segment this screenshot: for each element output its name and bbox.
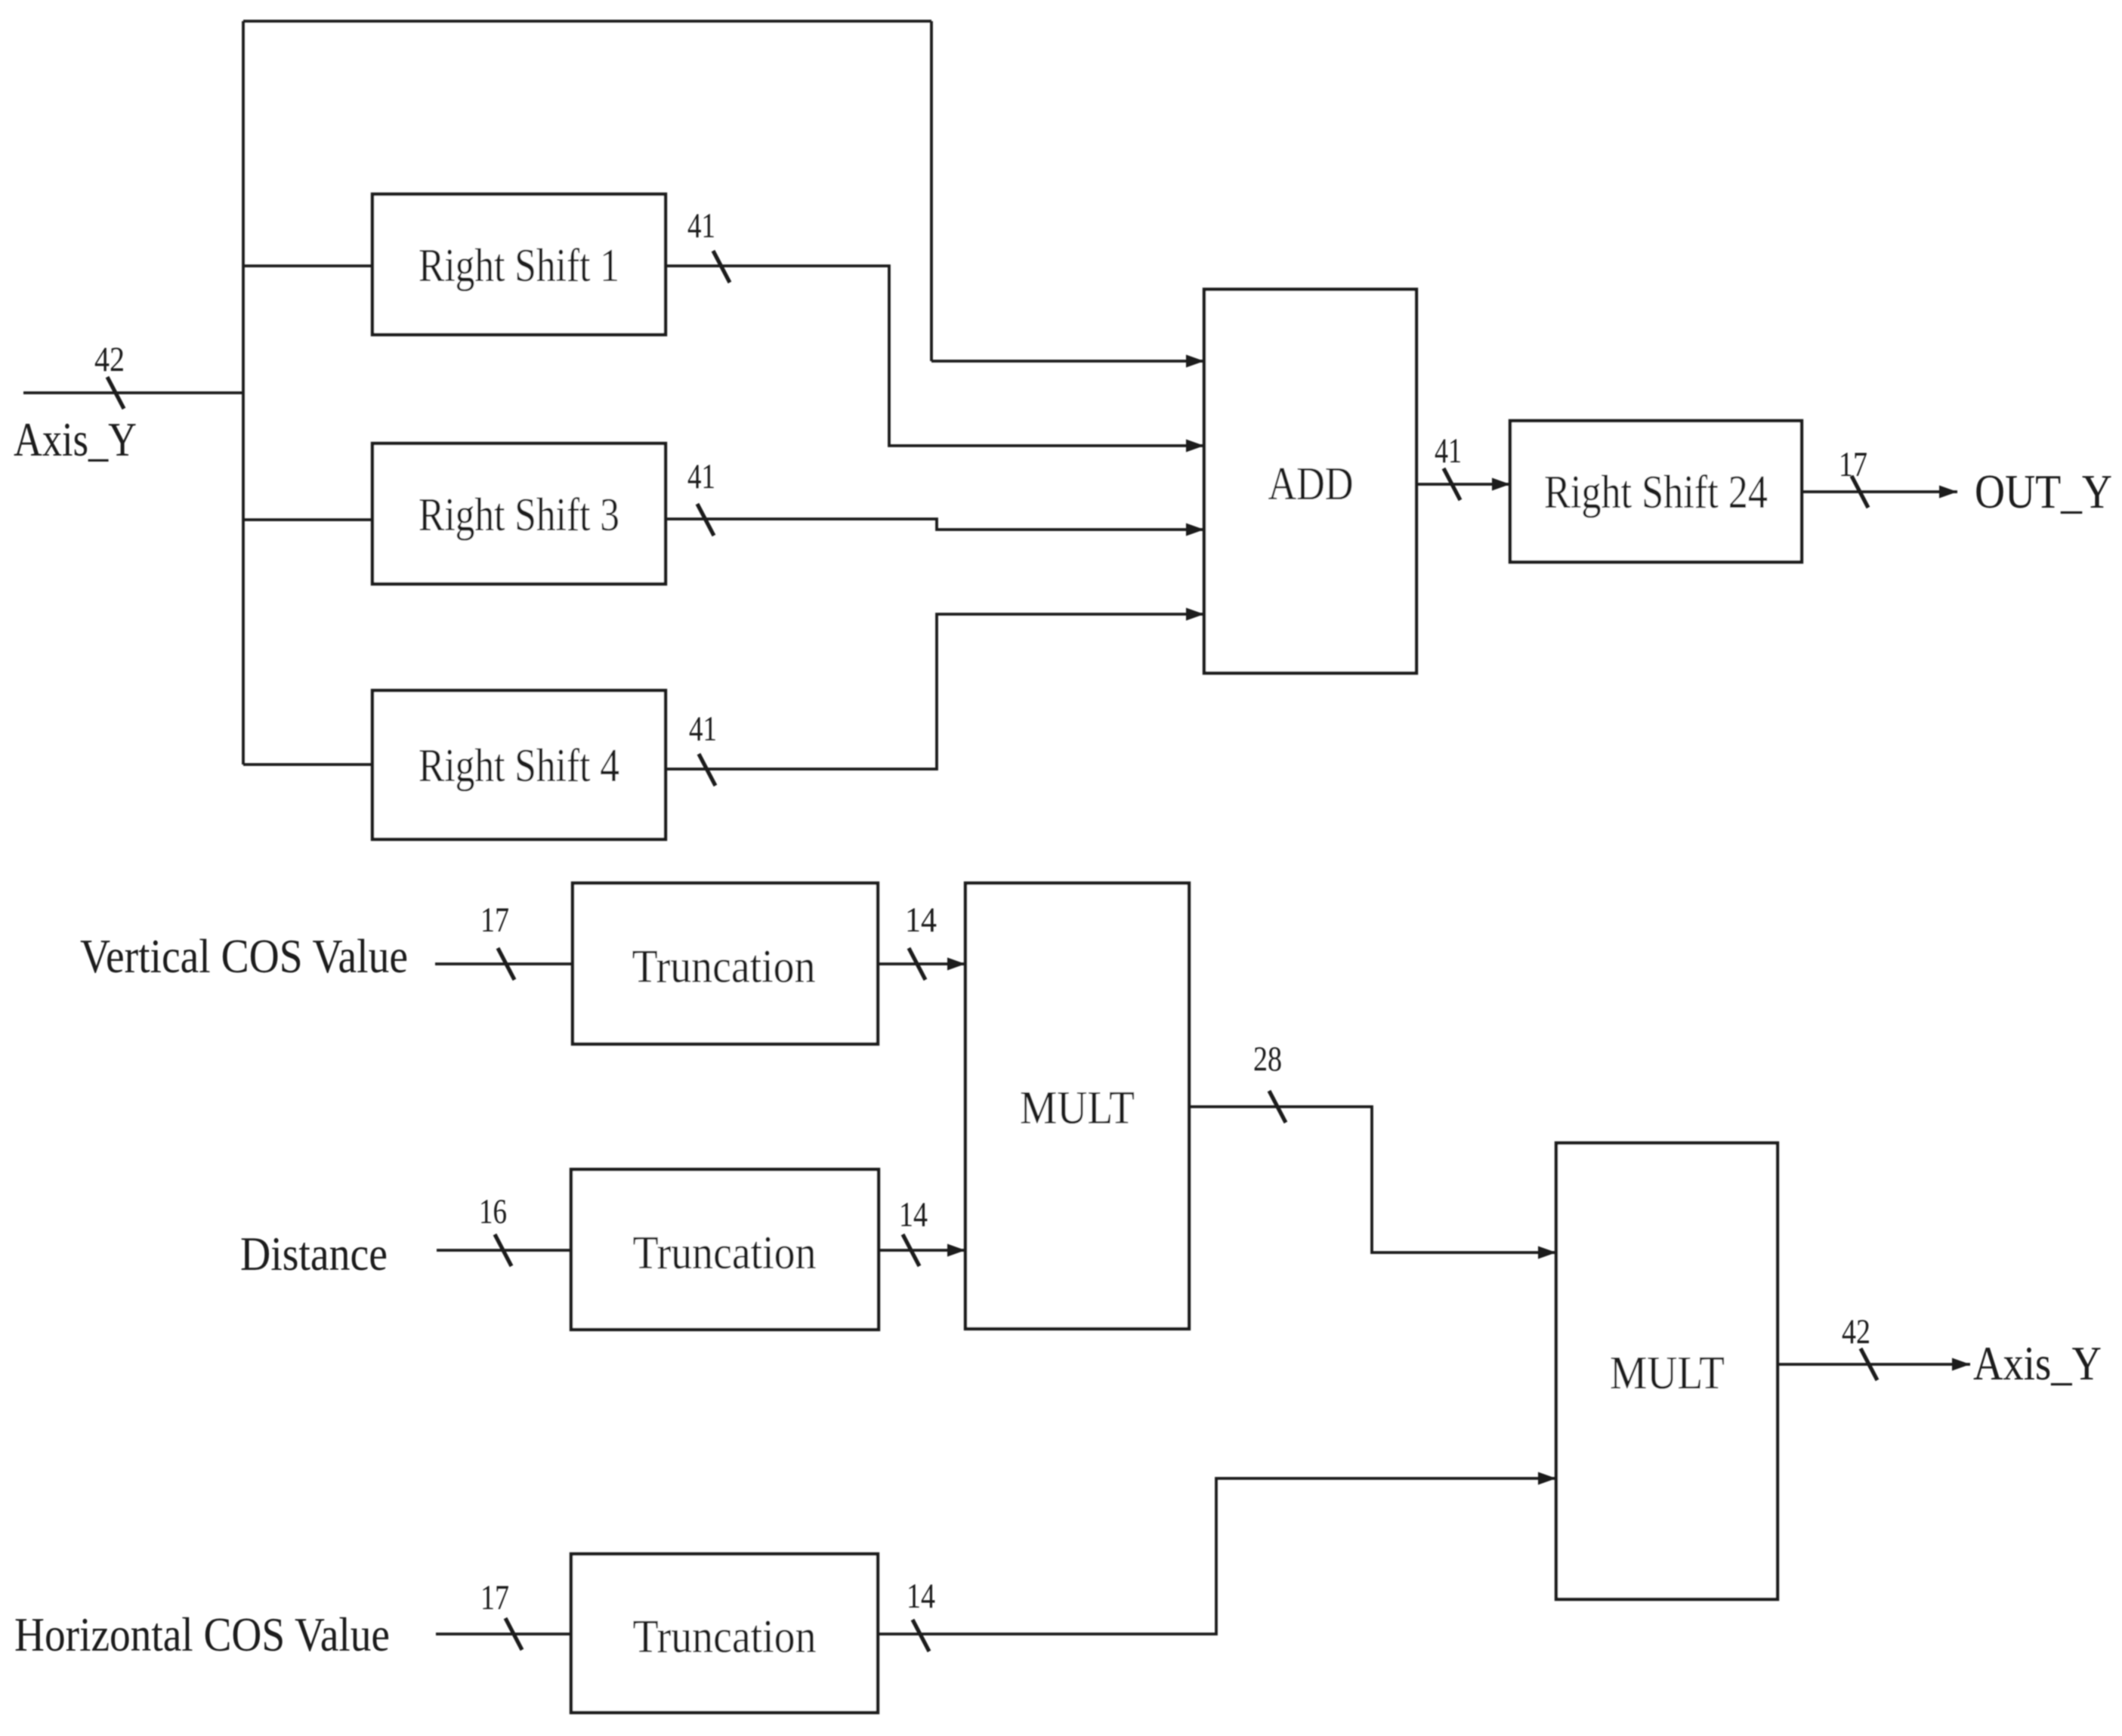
- arrowhead ADD input 1: [1186, 355, 1204, 368]
- bus-width slash 17 OUT_Y: [1852, 476, 1868, 508]
- block Truncation 1: [573, 883, 878, 1044]
- block MULT 1: [965, 883, 1189, 1329]
- arrowhead ADD input 3: [1186, 524, 1204, 536]
- wire Right Shift 3 output: [666, 519, 1204, 530]
- wire top bypass drop: [930, 21, 933, 361]
- arrowhead OUT_Y output: [1939, 486, 1957, 499]
- bus-width slash 14 Truncation 2: [903, 1234, 919, 1266]
- svg-text:Horizontal COS Value: Horizontal COS Value: [14, 1608, 390, 1661]
- wire top bypass horizontal: [243, 20, 931, 23]
- svg-text:Right Shift 4: Right Shift 4: [419, 740, 619, 792]
- block ADD: [1204, 289, 1416, 673]
- bus-width slash 42 MULT 2 output: [1861, 1348, 1877, 1380]
- wire Vertical COS input: [435, 962, 573, 965]
- svg-text:Right Shift 1: Right Shift 1: [419, 240, 619, 292]
- svg-text:14: 14: [899, 1195, 928, 1234]
- arrowhead MULT1 input 2: [947, 1244, 965, 1257]
- block Right Shift 1: [372, 194, 666, 335]
- svg-text:MULT: MULT: [1610, 1348, 1725, 1399]
- bus-width slash 41 Right Shift 1: [713, 251, 730, 283]
- bus-width slash 28 MULT 1: [1269, 1091, 1286, 1123]
- svg-text:17: 17: [480, 900, 509, 940]
- svg-text:28: 28: [1253, 1039, 1282, 1079]
- wire Horizontal COS input: [436, 1633, 571, 1636]
- svg-text:17: 17: [480, 1578, 509, 1617]
- arrowhead ADD input 4: [1186, 608, 1204, 621]
- svg-text:41: 41: [689, 709, 717, 749]
- bus-width slash 41 ADD output: [1444, 468, 1460, 500]
- wire Truncation 3 output: [878, 1478, 1556, 1634]
- svg-text:Truncation: Truncation: [633, 1611, 817, 1663]
- bus-width slash 41 Right Shift 4: [699, 754, 715, 786]
- bus-width slash 41 Right Shift 3: [697, 504, 714, 536]
- wire Right Shift 4 output: [666, 614, 1204, 769]
- svg-text:41: 41: [687, 206, 715, 246]
- bus-width slash 17 Horizontal COS: [505, 1618, 522, 1650]
- svg-text:41: 41: [687, 457, 715, 496]
- block Truncation 2: [571, 1169, 879, 1330]
- wire Axis_Y bus vertical: [242, 21, 245, 765]
- arrowhead ADD input 2: [1186, 440, 1204, 453]
- arrowhead MULT2 input 2: [1538, 1472, 1556, 1485]
- svg-text:16: 16: [479, 1192, 507, 1231]
- arrowhead MULT1 input 1: [947, 958, 965, 971]
- arrowhead Right Shift 24 input: [1492, 478, 1510, 491]
- bus-width slash 42 Axis_Y input: [107, 377, 124, 409]
- svg-text:41: 41: [1435, 431, 1462, 471]
- svg-text:MULT: MULT: [1020, 1083, 1135, 1134]
- bus-width slash 17 Vertical COS: [498, 948, 514, 980]
- wire Distance input: [437, 1249, 571, 1252]
- wire Right Shift 4 input: [243, 763, 372, 766]
- svg-text:ADD: ADD: [1268, 459, 1354, 510]
- svg-text:42: 42: [1842, 1312, 1870, 1351]
- arrowhead MULT2 input 1: [1538, 1246, 1556, 1259]
- arrowhead Axis_Y output: [1952, 1358, 1970, 1371]
- svg-text:Axis_Y: Axis_Y: [14, 412, 137, 466]
- svg-text:Truncation: Truncation: [632, 941, 816, 993]
- svg-text:14: 14: [905, 900, 937, 940]
- svg-text:Truncation: Truncation: [633, 1228, 817, 1279]
- svg-text:17: 17: [1839, 445, 1867, 484]
- block Right Shift 4: [372, 690, 666, 839]
- svg-text:42: 42: [94, 340, 125, 379]
- bus-width slash 16 Distance: [495, 1234, 511, 1266]
- svg-text:Axis_Y: Axis_Y: [1973, 1336, 2102, 1390]
- svg-text:Right Shift 24: Right Shift 24: [1544, 467, 1768, 518]
- wire Axis_Y input: [23, 391, 243, 394]
- bus-width slash 14 Truncation 1: [909, 948, 925, 980]
- wire OUT_Y output: [1802, 490, 1957, 493]
- bus-width slash 14 Truncation 3: [913, 1620, 929, 1651]
- block Right Shift 3: [372, 443, 666, 584]
- svg-text:Right Shift 3: Right Shift 3: [419, 490, 619, 541]
- block Right Shift 24: [1510, 421, 1802, 562]
- svg-text:Distance: Distance: [240, 1227, 388, 1280]
- wire ADD output: [1416, 483, 1510, 486]
- wire Truncation 2 output: [879, 1249, 965, 1252]
- svg-text:Vertical COS Value: Vertical COS Value: [80, 929, 408, 983]
- block Truncation 3: [571, 1554, 878, 1713]
- wire MULT 2 output: [1778, 1363, 1970, 1366]
- wire Right Shift 1 output: [666, 266, 1204, 446]
- svg-text:14: 14: [907, 1577, 935, 1616]
- svg-text:OUT_Y: OUT_Y: [1975, 465, 2112, 518]
- wire MULT 1 output: [1189, 1107, 1556, 1253]
- wire Right Shift 3 input: [243, 518, 372, 521]
- block MULT 2: [1556, 1143, 1778, 1599]
- wire Right Shift 1 input: [243, 264, 372, 267]
- wire ADD input 1: [931, 360, 1204, 363]
- wire Truncation 1 output: [878, 962, 965, 965]
